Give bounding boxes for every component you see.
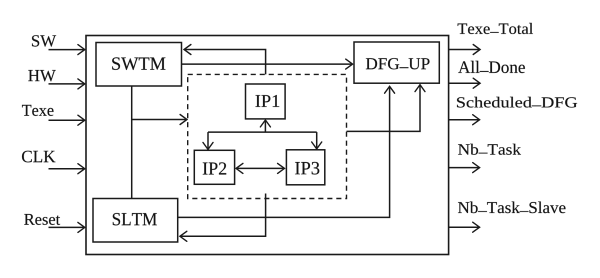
wire SWTM to DFG_UP <box>182 63 353 65</box>
output Texe_Total arrow <box>449 49 480 51</box>
output Nb_Task label <box>458 144 521 155</box>
wire SWTM to SLTM <box>131 86 133 199</box>
input CLK label <box>22 151 55 163</box>
input Texe arrow <box>49 119 85 121</box>
IP1 box <box>246 84 286 119</box>
input Reset label <box>24 214 60 225</box>
output Nb_Task_Slave arrow <box>449 226 480 228</box>
output Nb_Task_Slave label <box>458 202 566 214</box>
output Scheduled_DFG label <box>457 97 577 108</box>
dashed IP cluster box <box>188 74 347 198</box>
output Scheduled_DFG arrow <box>449 119 480 121</box>
outer box <box>86 36 449 255</box>
bus arrow into IP2 <box>207 132 209 149</box>
IP bus wire <box>208 131 317 133</box>
input SW label <box>32 35 56 46</box>
wire IP cluster to SWTM feedback <box>184 50 265 75</box>
SWTM box <box>96 43 182 87</box>
input CLK arrow <box>49 168 85 170</box>
SLTM box <box>93 199 178 243</box>
input SW arrow <box>49 49 85 51</box>
input Reset arrow <box>49 226 85 228</box>
output All_Done arrow <box>449 82 480 84</box>
output All_Done label <box>458 61 525 73</box>
bus arrow into IP3 <box>316 132 318 149</box>
input Texe label <box>22 105 54 116</box>
input HW label <box>28 70 55 81</box>
wire SLTM to DFG_UP <box>178 87 390 218</box>
wire IP2 to IP3 bidirectional <box>236 167 284 169</box>
wire SWTM branch to IP cluster <box>132 119 187 121</box>
wire IP cluster to DFG_UP <box>347 85 421 131</box>
IP2 box <box>194 150 234 184</box>
DFG_UP box <box>354 42 439 83</box>
input HW arrow <box>49 83 85 85</box>
wire IP cluster to SLTM return <box>180 194 266 237</box>
output Texe_Total label <box>458 23 533 34</box>
IP3 box <box>286 150 324 185</box>
bus arrow into IP1 <box>264 120 266 132</box>
output Nb_Task arrow <box>449 167 480 169</box>
